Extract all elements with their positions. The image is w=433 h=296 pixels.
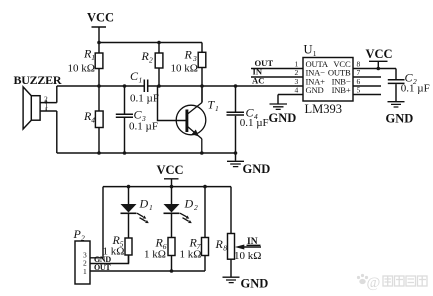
svg-text:GND: GND bbox=[269, 111, 297, 125]
svg-text:VCC: VCC bbox=[366, 47, 393, 61]
svg-text:INB+: INB+ bbox=[332, 85, 351, 95]
svg-text:GND: GND bbox=[306, 85, 324, 95]
svg-text:1: 1 bbox=[139, 76, 143, 85]
svg-text:1 kΩ: 1 kΩ bbox=[180, 249, 202, 261]
svg-text:1 kΩ: 1 kΩ bbox=[144, 249, 166, 261]
svg-text:2: 2 bbox=[149, 56, 153, 65]
svg-text:1: 1 bbox=[91, 53, 95, 62]
svg-text:OUT: OUT bbox=[94, 263, 111, 272]
svg-text:U: U bbox=[304, 43, 313, 57]
svg-text:BUZZER: BUZZER bbox=[14, 73, 62, 87]
svg-text:VCC: VCC bbox=[157, 163, 184, 177]
svg-text:0.1 µF: 0.1 µF bbox=[401, 83, 430, 95]
svg-text:@: @ bbox=[367, 275, 381, 291]
svg-text:8: 8 bbox=[223, 244, 227, 253]
svg-text:LM393: LM393 bbox=[305, 102, 343, 116]
svg-text:7: 7 bbox=[357, 68, 361, 77]
svg-text:R: R bbox=[215, 237, 224, 251]
svg-text:1: 1 bbox=[215, 104, 219, 113]
svg-text:10 kΩ: 10 kΩ bbox=[171, 63, 198, 75]
svg-text:4: 4 bbox=[295, 86, 299, 95]
svg-text:1 kΩ: 1 kΩ bbox=[103, 246, 125, 258]
svg-text:2: 2 bbox=[81, 234, 85, 243]
svg-text:1: 1 bbox=[45, 101, 49, 110]
svg-text:1: 1 bbox=[313, 49, 317, 58]
svg-text:GND: GND bbox=[386, 111, 414, 125]
svg-text:GND: GND bbox=[241, 277, 269, 291]
svg-text:1: 1 bbox=[149, 203, 153, 212]
svg-text:IN: IN bbox=[247, 237, 258, 247]
svg-text:0.1 µF: 0.1 µF bbox=[240, 117, 269, 129]
svg-text:2: 2 bbox=[194, 203, 198, 212]
svg-text:10 kΩ: 10 kΩ bbox=[234, 250, 261, 262]
svg-text:5: 5 bbox=[357, 86, 361, 95]
svg-text:1: 1 bbox=[83, 267, 87, 276]
svg-text:R: R bbox=[184, 48, 193, 62]
svg-text:VCC: VCC bbox=[87, 11, 114, 25]
svg-text:2: 2 bbox=[83, 258, 87, 267]
svg-text:AC: AC bbox=[252, 76, 264, 86]
svg-text:0.1 µF: 0.1 µF bbox=[129, 121, 158, 133]
svg-text:2: 2 bbox=[295, 68, 299, 77]
svg-text:D: D bbox=[139, 197, 149, 211]
svg-text:D: D bbox=[184, 197, 194, 211]
svg-text:GND: GND bbox=[243, 162, 271, 176]
svg-text:0.1 µF: 0.1 µF bbox=[130, 93, 159, 105]
svg-text:4: 4 bbox=[91, 116, 95, 125]
svg-text:10 kΩ: 10 kΩ bbox=[68, 63, 95, 75]
